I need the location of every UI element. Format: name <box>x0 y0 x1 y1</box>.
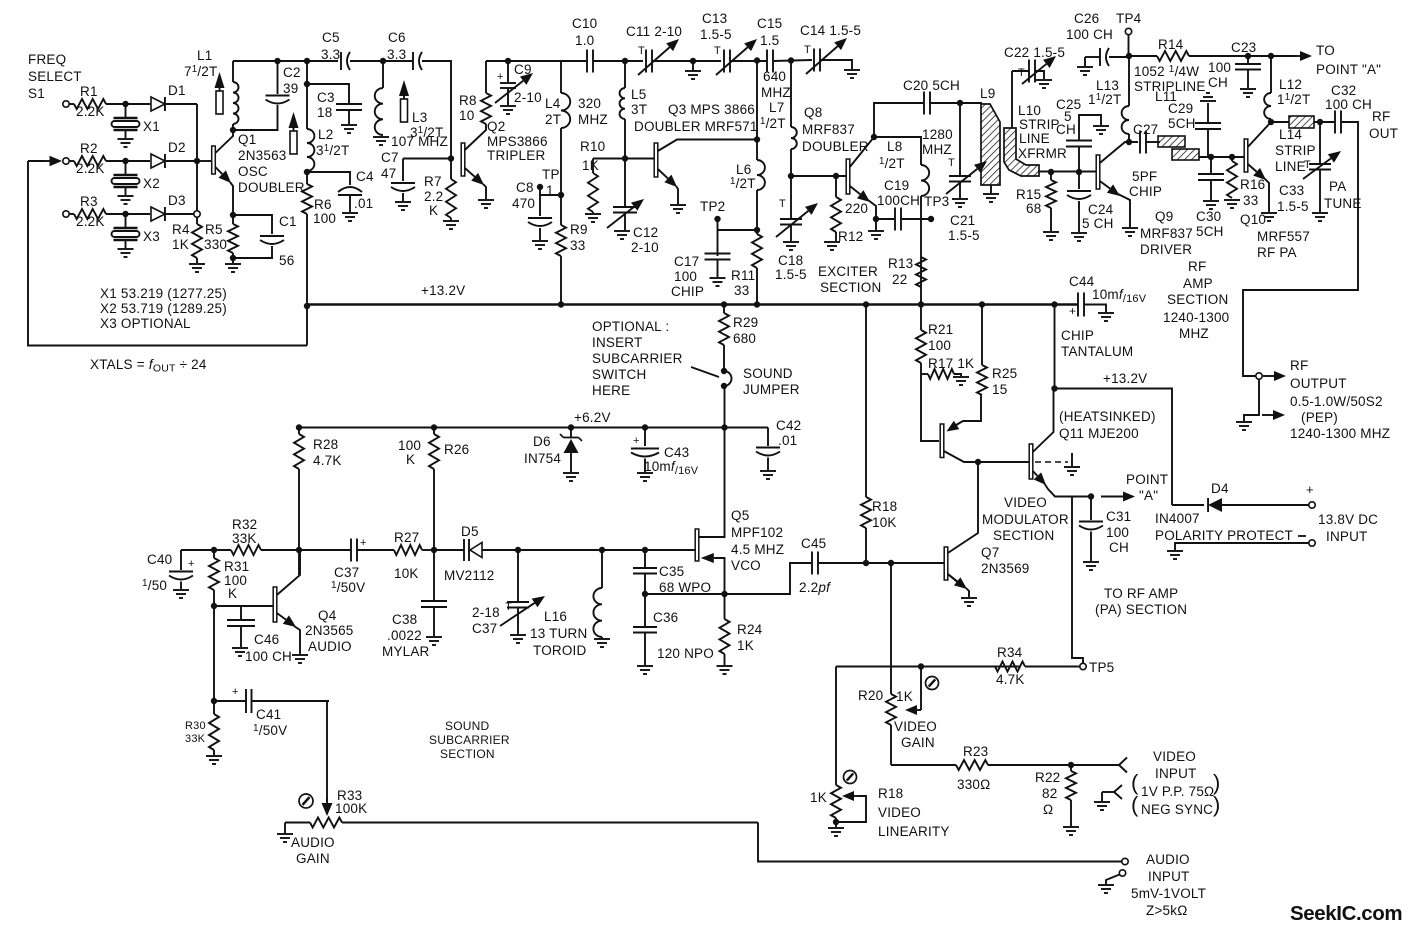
junction R29 top <box>721 301 727 307</box>
svg-text:107 MHZ: 107 MHZ <box>391 134 448 149</box>
transistor Q2 MPS3866 <box>461 124 486 199</box>
svg-text:33: 33 <box>734 283 749 298</box>
svg-text:2.2K: 2.2K <box>76 161 105 176</box>
junction +13.2V(2) <box>1051 385 1057 391</box>
svg-text:C8: C8 <box>516 180 534 195</box>
svg-text:+13.2V: +13.2V <box>1103 371 1147 386</box>
svg-text:R9: R9 <box>570 222 588 237</box>
wire VCO gate line <box>518 549 695 551</box>
resistor R32 33K <box>214 517 299 555</box>
pot R33 100K AUDIO GAIN <box>285 788 758 828</box>
svg-text:C45: C45 <box>801 536 826 551</box>
svg-text:C22 1.5-5: C22 1.5-5 <box>1004 45 1065 60</box>
wire C44 to Q11 rail <box>1054 305 1056 389</box>
svg-text:C41: C41 <box>256 707 281 722</box>
svg-text:CH: CH <box>1109 540 1129 555</box>
svg-text:D2: D2 <box>168 140 186 155</box>
wire C20 to L9 <box>930 102 982 104</box>
junction Q10 collector <box>1268 119 1274 125</box>
svg-text:L8: L8 <box>887 139 902 154</box>
label AUDIO INPUT <box>1131 852 1206 918</box>
stripline L10 <box>1004 103 1067 176</box>
svg-text:DOUBLER MRF571: DOUBLER MRF571 <box>634 119 758 134</box>
wire +13.2V rail <box>307 303 1078 305</box>
svg-text:2-18: 2-18 <box>472 605 500 620</box>
junction 13.2V tap <box>304 303 310 309</box>
svg-text:C17: C17 <box>674 254 699 269</box>
resistor R22 82 <box>1035 765 1076 826</box>
svg-text:MRF837: MRF837 <box>1140 226 1193 241</box>
svg-text:4.5 MHZ: 4.5 MHZ <box>731 542 784 557</box>
wire video gain bus <box>890 563 892 694</box>
svg-text:1240-1300 MHZ: 1240-1300 MHZ <box>1290 426 1390 441</box>
capacitor C33 1.5-5 <box>1277 122 1341 214</box>
testpoint TP5 <box>1080 660 1115 675</box>
svg-text:IN754: IN754 <box>524 451 561 466</box>
svg-text:C36: C36 <box>653 610 678 625</box>
svg-text:R21: R21 <box>928 322 953 337</box>
svg-text:11/2T: 11/2T <box>1088 92 1121 107</box>
svg-text:): ) <box>1213 792 1221 817</box>
svg-text:R25: R25 <box>992 366 1017 381</box>
svg-text:1.0: 1.0 <box>575 33 594 48</box>
svg-text:STRIP: STRIP <box>1275 143 1316 158</box>
capacitor C40 1/50 <box>142 550 214 593</box>
transistor Q1 2N3563 <box>197 124 233 215</box>
svg-text:18: 18 <box>317 105 332 120</box>
junction point A <box>1088 493 1094 499</box>
transistor Q10 MRF557 <box>1244 122 1271 212</box>
resistor R4 1K <box>172 217 202 263</box>
wire collector to L8 <box>874 137 921 165</box>
wire rail to collector <box>756 61 758 140</box>
junction Q1 collector <box>230 127 236 133</box>
arrow POINT A <box>1101 472 1168 503</box>
ground L16 <box>594 639 610 647</box>
ground rail mid <box>685 61 701 79</box>
transistor Q3 MRF571 <box>654 140 757 205</box>
svg-text:Q1: Q1 <box>238 132 256 147</box>
svg-text:10K: 10K <box>394 566 419 581</box>
svg-text:AUDIO: AUDIO <box>291 835 335 850</box>
label +13.2V second <box>1103 371 1147 386</box>
svg-text:320: 320 <box>578 96 601 111</box>
svg-text:R31: R31 <box>224 559 249 574</box>
label EXCITER SECTION <box>818 264 881 295</box>
label Q8 <box>802 105 869 154</box>
wire diode bus <box>196 104 198 211</box>
svg-text:100: 100 <box>313 211 336 226</box>
junction R20 wiper node <box>918 663 924 669</box>
svg-text:CH: CH <box>1056 122 1076 137</box>
svg-text:C21: C21 <box>950 213 975 228</box>
svg-text:C37: C37 <box>334 565 359 580</box>
testpoint TP4 <box>1116 11 1142 56</box>
svg-text:L9: L9 <box>980 86 995 101</box>
label Q4 <box>305 608 354 654</box>
resistor R2 2.2K <box>69 141 106 176</box>
junction TP4 rail <box>1126 53 1132 59</box>
junction C3 branch <box>304 81 310 87</box>
ground C31 <box>1083 562 1099 570</box>
wire base to Q3 <box>625 158 654 160</box>
svg-text:5PF: 5PF <box>1132 169 1157 184</box>
svg-text:VCO: VCO <box>731 558 761 573</box>
svg-text:D1: D1 <box>168 83 186 98</box>
ground R16 <box>1224 200 1240 208</box>
pot R18 linearity 1K <box>810 785 841 827</box>
label 1280 MHZ <box>922 127 953 157</box>
svg-text:56: 56 <box>279 253 294 268</box>
svg-text:CH: CH <box>1208 75 1228 90</box>
wire Q4 base <box>214 605 273 607</box>
svg-text:Q9: Q9 <box>1155 209 1173 224</box>
svg-text:C43: C43 <box>664 445 689 460</box>
capacitor C41 1/50V <box>214 686 329 738</box>
label +13.2V <box>421 283 465 298</box>
resistor R28 4.7K <box>294 428 342 576</box>
inductor L16 toroid <box>593 550 602 638</box>
label Q9 <box>1140 209 1193 257</box>
label AUDIO GAIN <box>291 835 335 866</box>
label 640MHZ L7 <box>760 69 791 131</box>
ground DC return <box>1167 551 1183 559</box>
svg-text:T: T <box>638 45 645 57</box>
svg-text:SUBCARRIER: SUBCARRIER <box>592 351 683 366</box>
wire L11 to Q10 <box>1199 156 1244 158</box>
node RF output <box>1256 373 1262 379</box>
svg-text:1K: 1K <box>737 638 754 653</box>
ground C26 <box>1077 67 1093 75</box>
ground C14 <box>844 70 860 78</box>
label FREQ SELECT S1 <box>28 52 82 101</box>
svg-text:X2: X2 <box>143 176 160 191</box>
inductor L1 7 1/2T <box>184 48 239 124</box>
svg-text:4.7K: 4.7K <box>996 672 1025 687</box>
inductor L8 1/2T <box>879 139 929 305</box>
input arrow S1 <box>28 156 62 166</box>
svg-text:MRF557: MRF557 <box>1257 229 1310 244</box>
node audio input <box>1122 858 1128 864</box>
label RF AMP SECTION <box>1163 259 1229 341</box>
resistor R21 100 <box>916 305 953 375</box>
svg-text:T: T <box>1018 67 1025 79</box>
svg-text:C1: C1 <box>279 214 297 229</box>
svg-text:HERE: HERE <box>592 383 630 398</box>
ground C24 <box>1071 233 1087 241</box>
svg-text:33K: 33K <box>185 733 206 745</box>
wire L14 to C32 <box>1314 121 1334 123</box>
junction L13 bottom <box>1126 139 1132 145</box>
svg-text:100: 100 <box>1208 60 1231 75</box>
svg-text:TP5: TP5 <box>1089 660 1114 675</box>
svg-text:1: 1 <box>546 183 554 198</box>
ground R24 <box>717 666 733 674</box>
wire +6.2V rail <box>299 427 768 429</box>
svg-text:C18: C18 <box>778 253 803 268</box>
label R18 VIDEO LINEARITY <box>878 786 950 839</box>
wire TP2 to R11 <box>718 229 758 231</box>
svg-text:1.5-5: 1.5-5 <box>1277 199 1309 214</box>
junction L2 top <box>304 58 310 64</box>
svg-text:C19: C19 <box>884 178 909 193</box>
capacitor C15 1.5 <box>757 16 782 73</box>
inductor L2 3 1/2T <box>307 127 349 171</box>
svg-text:11/2T: 11/2T <box>1277 92 1310 107</box>
capacitor C21 1.5-5 <box>946 103 987 243</box>
ground C9 <box>500 106 516 114</box>
svg-text:10: 10 <box>459 108 474 123</box>
label XTALS formula <box>90 356 207 375</box>
dashed Q11 tab <box>1035 453 1080 475</box>
ground RF output <box>1236 422 1252 430</box>
label crystal note <box>100 286 227 331</box>
wire R3 to D3 <box>106 213 150 215</box>
ground C22 <box>1036 80 1052 88</box>
svg-text:+6.2V: +6.2V <box>574 410 611 425</box>
svg-text:S1: S1 <box>28 86 45 101</box>
svg-text:RF: RF <box>1372 109 1390 124</box>
svg-text:+: + <box>1306 482 1314 497</box>
capacitor C32 100CH <box>1325 83 1372 134</box>
stripline L9 <box>980 86 1000 185</box>
svg-text:DRIVER: DRIVER <box>1140 242 1192 257</box>
svg-text:POLARITY PROTECT: POLARITY PROTECT <box>1155 528 1293 543</box>
capacitor C27 5PF CHIP <box>1129 122 1162 199</box>
junction R11 top <box>754 227 760 233</box>
svg-text:R26: R26 <box>444 442 469 457</box>
svg-text:VIDEO: VIDEO <box>878 805 921 820</box>
ground D6 <box>563 473 579 481</box>
svg-text:STRIPLINE: STRIPLINE <box>1134 79 1206 94</box>
label TO RF AMP <box>1095 586 1187 617</box>
wire C27 to L11 <box>1146 141 1160 143</box>
label Q10 <box>1240 212 1310 260</box>
svg-text:1K: 1K <box>172 237 189 252</box>
svg-text:100 CH: 100 CH <box>1325 97 1372 112</box>
junction R25 branch <box>979 301 985 307</box>
svg-text:R10: R10 <box>580 139 605 154</box>
svg-text:2.2pf: 2.2pf <box>799 580 831 595</box>
wire osc tank rail <box>233 60 338 62</box>
arrow TO POINT A <box>1290 43 1381 77</box>
svg-text:C15: C15 <box>757 16 782 31</box>
svg-text:1/50V: 1/50V <box>253 723 287 738</box>
svg-text:L12: L12 <box>1279 77 1302 92</box>
svg-text:(: ( <box>1131 792 1139 817</box>
wire collector to C20 <box>874 103 923 137</box>
svg-text:X1 53.219 (1277.25): X1 53.219 (1277.25) <box>100 286 227 301</box>
junction L12 top <box>1268 53 1274 59</box>
wire collector to L14 <box>1271 121 1289 123</box>
svg-text:13 TURN: 13 TURN <box>530 626 587 641</box>
svg-text:MHZ: MHZ <box>1179 326 1209 341</box>
svg-text:OUTPUT: OUTPUT <box>1290 376 1347 391</box>
ground R33 <box>277 823 293 843</box>
junction C45 node2 <box>888 560 894 566</box>
junction L16 trimmer <box>515 547 521 553</box>
svg-text:(PA) SECTION: (PA) SECTION <box>1095 602 1187 617</box>
svg-text:VIDEO: VIDEO <box>894 719 937 734</box>
diode D2 <box>151 140 186 168</box>
arrow RF OUTPUT <box>1263 358 1347 391</box>
capacitor C19 100CH <box>876 178 931 231</box>
input terminal R3 <box>63 211 69 217</box>
crystal X2 <box>112 161 160 195</box>
svg-text:1/50V: 1/50V <box>331 580 365 595</box>
svg-text:2T: 2T <box>545 112 561 127</box>
svg-text:TO RF AMP: TO RF AMP <box>1104 586 1178 601</box>
capacitor C5 3.3 <box>321 30 350 70</box>
svg-text:R23: R23 <box>963 744 988 759</box>
label R5 330 <box>204 222 227 252</box>
svg-text:R5: R5 <box>205 222 223 237</box>
svg-text:FREQ: FREQ <box>28 52 66 67</box>
capacitor C2 39 <box>233 61 301 130</box>
resistor R27 10K <box>357 530 434 581</box>
svg-text:R20: R20 <box>858 688 883 703</box>
svg-text:"A": "A" <box>1139 488 1158 503</box>
svg-text:68: 68 <box>1026 201 1041 216</box>
svg-text:X3: X3 <box>143 229 160 244</box>
svg-text:VIDEO: VIDEO <box>1004 495 1047 510</box>
svg-text:X3 OPTIONAL: X3 OPTIONAL <box>100 316 191 331</box>
svg-text:K: K <box>228 586 237 601</box>
stripline L11 <box>1155 89 1199 160</box>
transistor Q9 MRF837 <box>1096 142 1138 227</box>
capacitor C36 120NPO <box>633 594 714 665</box>
wire C11-C13 <box>652 60 721 62</box>
svg-text:5 CH: 5 CH <box>1082 216 1114 231</box>
svg-text:C26: C26 <box>1074 11 1099 26</box>
wire R31 to C41 <box>213 606 215 701</box>
ground R30 <box>206 756 222 764</box>
svg-text:K: K <box>406 452 415 467</box>
svg-text:39: 39 <box>283 81 298 96</box>
svg-text:C42: C42 <box>776 418 801 433</box>
ground Q3 emitter <box>670 205 686 213</box>
junction C36 top <box>642 591 648 597</box>
svg-text:33: 33 <box>1243 193 1258 208</box>
svg-text:DOUBLER: DOUBLER <box>238 180 305 195</box>
svg-text:R1: R1 <box>80 84 98 99</box>
resistor R25 15 <box>977 305 1017 398</box>
svg-text:(PEP): (PEP) <box>1301 410 1338 425</box>
label L16 13 TURN TOROID <box>530 609 587 658</box>
svg-text:C12: C12 <box>633 225 658 240</box>
resistor R3 2.2K <box>69 194 106 229</box>
inductor L13 1 1/2T <box>1088 56 1129 142</box>
svg-text:XFRMR: XFRMR <box>1018 146 1067 161</box>
svg-text:68 WPO: 68 WPO <box>659 580 711 595</box>
wire C41 to audio gain <box>326 701 328 801</box>
svg-text:1.5-5: 1.5-5 <box>700 27 732 42</box>
resistor R11 33 <box>731 234 762 305</box>
svg-text:3.3: 3.3 <box>387 47 406 62</box>
transistor Q7 2N3569 <box>944 547 969 597</box>
svg-text:C44: C44 <box>1069 274 1095 289</box>
wire callout <box>691 367 719 377</box>
label Q11 <box>1059 409 1156 441</box>
arrow audio wiper <box>322 798 333 816</box>
svg-text:120 NPO: 120 NPO <box>657 646 714 661</box>
svg-text:OPTIONAL :: OPTIONAL : <box>592 319 669 334</box>
resistor R17 1K <box>921 356 974 379</box>
label IN4007 POLARITY PROTECT <box>1155 511 1293 543</box>
corner linearity <box>835 667 837 786</box>
svg-text:L6: L6 <box>736 162 751 177</box>
ground Q7 emitter <box>961 598 977 606</box>
junction R11 bottom <box>754 301 760 307</box>
resistor R5 330 (emitter) <box>228 215 238 263</box>
wire R21 to Q6 base <box>921 374 939 441</box>
label SOUND SUBCARRIER SECTION <box>429 719 510 761</box>
ground C21 <box>952 199 968 207</box>
svg-text:5CH: 5CH <box>1196 224 1224 239</box>
ground C46 <box>232 648 248 656</box>
resistor R18 10K <box>861 305 897 564</box>
capacitor C44 10mf/16V <box>1069 274 1147 318</box>
svg-text:D6: D6 <box>533 434 551 449</box>
svg-text:R32: R32 <box>232 517 257 532</box>
wire C5-C6 <box>350 60 413 62</box>
svg-text:SeekIC.com: SeekIC.com <box>1290 902 1402 925</box>
wire L2 branch <box>306 61 308 129</box>
junction R26 bottom <box>431 547 437 553</box>
junction C9 top <box>505 58 511 64</box>
ground C4 <box>342 213 358 221</box>
ground C3 <box>341 125 357 133</box>
svg-text:T: T <box>948 157 955 169</box>
junction Q5 source node <box>721 591 727 597</box>
svg-text:SOUND: SOUND <box>743 366 793 381</box>
ground X3 <box>118 249 134 257</box>
svg-text:47: 47 <box>381 166 396 181</box>
junction R26 top <box>431 424 437 430</box>
svg-text:C2: C2 <box>283 65 301 80</box>
svg-text:R15: R15 <box>1016 187 1041 202</box>
svg-text:L2: L2 <box>318 127 333 142</box>
label Q3 <box>634 102 758 134</box>
svg-text:C40: C40 <box>147 552 172 567</box>
junction C2 top <box>274 58 280 64</box>
crystal X3 <box>112 214 160 248</box>
svg-text:R18: R18 <box>872 499 897 514</box>
diode D3 <box>151 193 186 221</box>
junction R9 bottom <box>558 301 564 307</box>
svg-text:2-10: 2-10 <box>631 240 659 255</box>
junction Q4 base node <box>211 603 217 609</box>
capacitor C10 1.0 <box>572 16 597 73</box>
capacitor C1 56 <box>233 214 297 268</box>
svg-text:R6: R6 <box>314 197 332 212</box>
resistor R14 1052 <box>1129 37 1294 61</box>
wire C10-C11 <box>593 60 643 62</box>
svg-text:TP2: TP2 <box>700 199 725 214</box>
svg-text:100CH: 100CH <box>877 193 920 208</box>
wire C6 to Q2 base <box>422 61 451 159</box>
ground R10 <box>585 212 601 222</box>
svg-text:R24: R24 <box>737 622 763 637</box>
junction D2 base <box>194 158 200 164</box>
capacitor C46 100CH <box>227 606 292 664</box>
transistor Q8 MRF837 <box>846 137 876 230</box>
inductor L5 3T <box>620 61 648 159</box>
capacitor C3 18 <box>307 84 362 124</box>
junction R22 top <box>1068 762 1074 768</box>
svg-text:2.2K: 2.2K <box>76 104 105 119</box>
node DC- <box>1298 536 1315 546</box>
